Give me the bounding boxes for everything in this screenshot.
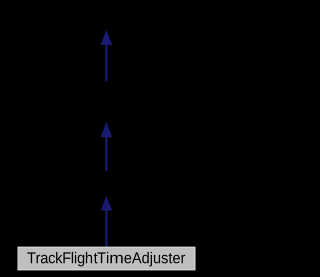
inheritance arrow 2 (middle, edge to intermediate base class) [101, 122, 113, 171]
label TrackFlightTimeAdjuster [27, 252, 185, 267]
node TrackFlightTimeAdjuster (current class box) [18, 247, 195, 270]
inheritance graph for class TrackFlightTimeAdjuster [0, 0, 213, 277]
inheritance arrow 3 (bottom, edge from TrackFlightTimeAdjuster) [101, 196, 113, 248]
inheritance arrow 1 (topmost, edge to root base class) [101, 30, 113, 81]
